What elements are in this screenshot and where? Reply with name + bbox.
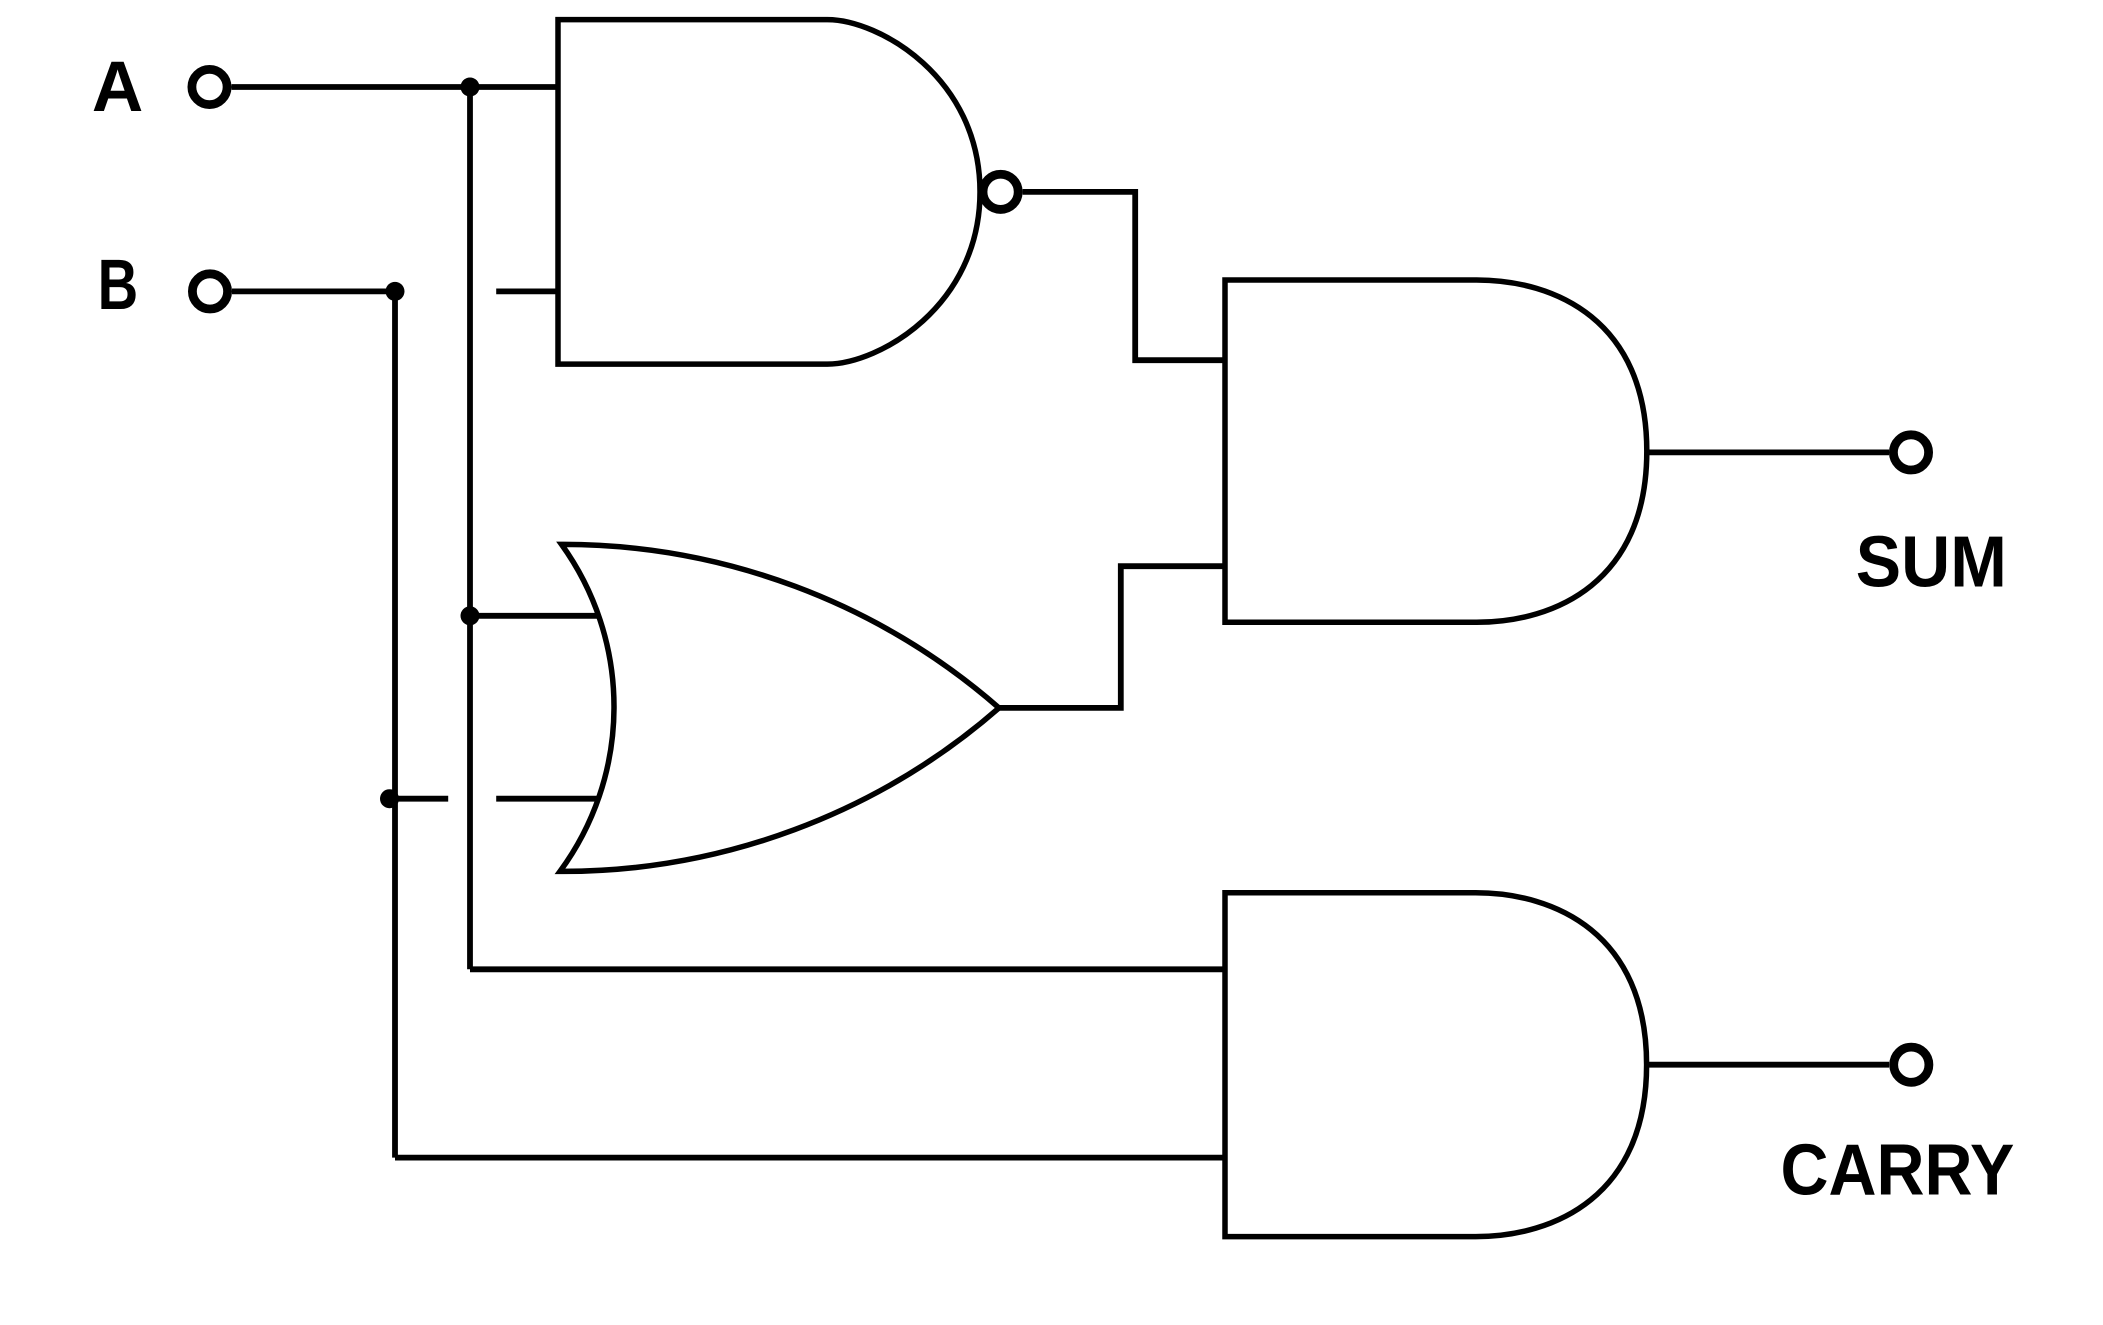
wire A to NAND top input <box>232 84 559 90</box>
terminal B <box>192 274 227 309</box>
svg-text:B: B <box>98 246 139 325</box>
wire B vertical branch <box>392 291 398 1157</box>
AND gate U3 (SUM) body <box>1225 280 1647 622</box>
NAND gate U1 body <box>558 20 980 365</box>
AND gate U4 (CARRY) body <box>1225 893 1647 1237</box>
svg-text:A: A <box>92 48 143 127</box>
node OR top input junction <box>461 606 480 625</box>
terminal SUM <box>1893 435 1928 470</box>
wire OR output to SUM bottom input <box>999 566 1225 708</box>
wire A branch to CARRY top input <box>470 966 1225 972</box>
NAND gate U1 bubble <box>983 174 1018 209</box>
wire B to junction <box>232 288 395 294</box>
terminal CARRY <box>1894 1047 1929 1082</box>
svg-text:SUM: SUM <box>1856 522 2007 602</box>
svg-text:CARRY: CARRY <box>1781 1131 2015 1211</box>
OR gate U2 body <box>560 544 999 871</box>
wire B branch to CARRY bottom input <box>395 1155 1225 1161</box>
wire CARRY output <box>1647 1062 1890 1068</box>
node B branch junction <box>386 282 405 301</box>
wire B branch to OR bottom input (segment before crossing) <box>390 796 449 802</box>
wire SUM output <box>1647 449 1889 455</box>
wire B branch to OR bottom input (segment after crossing) <box>496 796 598 802</box>
wire A branch to OR top input <box>470 613 597 619</box>
node OR bottom input junction <box>380 789 399 808</box>
wire A vertical branch <box>467 87 473 969</box>
wire NAND output to SUM top input <box>1023 192 1225 360</box>
wire B stub to NAND bottom input <box>496 288 558 294</box>
node A branch junction <box>461 78 480 97</box>
terminal A <box>192 69 227 104</box>
